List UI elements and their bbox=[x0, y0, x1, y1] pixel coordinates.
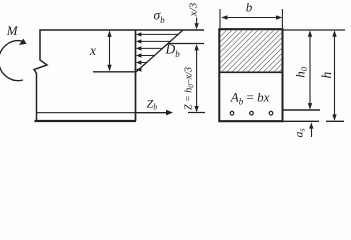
svg-text:Zb: Zb bbox=[147, 97, 158, 112]
section outline bbox=[218, 29, 283, 121]
section neutral axis line bbox=[219, 71, 284, 73]
reinforcement line bbox=[37, 112, 136, 114]
b dimension extension lines bbox=[220, 9, 282, 28]
beam left edge with break bbox=[34, 30, 47, 121]
svg-text:x/3: x/3 bbox=[187, 2, 199, 17]
D_b level extension line bbox=[168, 43, 204, 45]
svg-text:h0: h0 bbox=[292, 66, 309, 78]
svg-text:Ab = bx: Ab = bx bbox=[230, 89, 270, 106]
section compression hatch bbox=[220, 31, 283, 73]
stress arrows bbox=[136, 32, 178, 71]
svg-text:M: M bbox=[6, 23, 19, 38]
neutral axis line bbox=[93, 71, 136, 73]
h bottom tick bbox=[326, 120, 344, 122]
Z_b level tick bbox=[188, 112, 205, 114]
dimension Z arrow bbox=[194, 44, 198, 112]
dimension h0 arrow bbox=[308, 30, 312, 109]
svg-text:Z = h0–x/3: Z = h0–x/3 bbox=[184, 67, 196, 110]
svg-text:h: h bbox=[319, 72, 334, 79]
dimension x/3 arrow bbox=[194, 18, 198, 30]
beam top edge with extension bbox=[39, 29, 204, 31]
moment arrow M bbox=[0, 39, 26, 81]
svg-text:b: b bbox=[246, 0, 253, 15]
beam bottom edge bbox=[35, 120, 137, 122]
svg-text:Db: Db bbox=[165, 42, 181, 60]
svg-text:σb: σb bbox=[154, 8, 166, 26]
svg-text:x: x bbox=[89, 43, 96, 58]
svg-text:as: as bbox=[292, 128, 307, 137]
bottom level extension line bbox=[284, 120, 320, 122]
dimension a_s arrow bbox=[309, 122, 313, 137]
stress diagram diagonal bbox=[136, 30, 183, 72]
beam right edge bbox=[135, 30, 137, 121]
force arrow Z_b bbox=[136, 110, 174, 116]
dimension x arrow bbox=[107, 30, 111, 71]
rebar level extension line bbox=[284, 109, 321, 111]
dimension b arrow bbox=[221, 15, 282, 19]
dimension h arrow bbox=[332, 30, 336, 120]
rebar circles bbox=[230, 111, 273, 115]
section top extension line bbox=[284, 29, 346, 31]
